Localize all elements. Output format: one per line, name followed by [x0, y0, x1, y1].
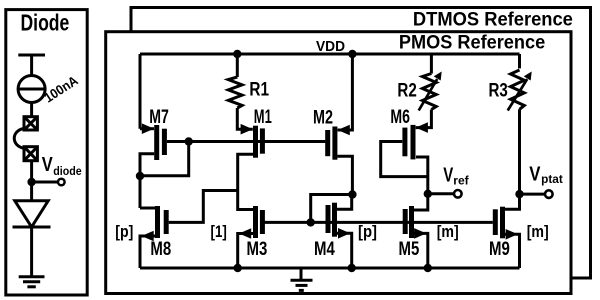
svg-text:diode: diode: [53, 164, 82, 178]
wire R3 bottom to Vptat node: [518, 109, 521, 194]
R2 trim arrow: [419, 72, 442, 111]
node dot Vptat: [515, 190, 523, 198]
wire bottom rail: [140, 267, 520, 270]
wire diode to ground: [30, 227, 33, 276]
terminal Vdiode: [58, 179, 65, 186]
crossed box 2: [24, 147, 37, 161]
ground main stem: [300, 268, 303, 280]
svg-text:[1]: [1]: [211, 222, 227, 241]
svg-text:DTMOS Reference: DTMOS Reference: [413, 10, 573, 31]
wire gate bus M3-M4-M5-M9: [264, 221, 493, 224]
svg-text:[m]: [m]: [527, 222, 549, 241]
node dot bottom M4: [348, 264, 356, 272]
current source diameter line: [18, 88, 45, 91]
R3 trim arrow: [508, 72, 532, 111]
svg-text:M3: M3: [247, 239, 268, 260]
wire M8 gate lead: [169, 191, 238, 223]
svg-text:[p]: [p]: [115, 222, 133, 241]
wire M4 source lead to bottom rail: [337, 233, 352, 268]
wire R2 top: [430, 54, 433, 74]
transistor M1: [241, 124, 265, 158]
svg-text:PMOS Reference: PMOS Reference: [399, 33, 545, 54]
transistor M3: [239, 206, 265, 239]
svg-text:Diode: Diode: [21, 9, 70, 35]
crossed box 1: [24, 117, 37, 130]
node dot bottom M5: [424, 264, 432, 272]
wire Vptat down to M9 drain lead: [505, 194, 520, 209]
wire top bar to circle: [30, 55, 33, 76]
svg-text:[p]: [p]: [358, 222, 377, 241]
svg-text:ref: ref: [453, 174, 469, 188]
svg-text:M5: M5: [399, 239, 420, 260]
transistor M6: [402, 122, 428, 159]
wire M2 source to VDD: [338, 54, 353, 130]
wire Vptat node to terminal: [520, 193, 546, 196]
wire M7 drain lead: [140, 154, 154, 176]
diode D1: [15, 201, 48, 227]
node dot Vref: [424, 190, 432, 198]
wire M5 source lead to bottom rail: [414, 233, 428, 268]
wire M1 drain to M3 drain: [238, 154, 253, 209]
resistor R3 zigzag: [511, 70, 525, 109]
svg-text:V: V: [42, 154, 54, 176]
wire R1 top: [236, 54, 239, 77]
wire M7 gate lead and gate bus to M2: [167, 140, 326, 143]
wire left edge upper: [139, 54, 142, 129]
svg-text:R1: R1: [249, 80, 269, 101]
wire R1 bottom to M1 source: [237, 108, 253, 129]
wire M6 gate feedback loop: [381, 142, 428, 177]
node dot bottom M3: [234, 264, 242, 272]
wire M4 drain lead: [337, 195, 352, 210]
svg-text:M2: M2: [313, 108, 333, 129]
svg-text:M6: M6: [390, 107, 410, 128]
node dot M2-M4: [348, 190, 356, 198]
transistor M2: [325, 125, 350, 160]
terminal Vptat: [545, 190, 553, 198]
wire circle to box1: [30, 103, 33, 117]
wire Vdiode tap: [32, 181, 58, 184]
bypass arc: [14, 129, 24, 149]
svg-text:M4: M4: [314, 239, 335, 260]
transistor M4: [326, 203, 351, 239]
wire M3 source lead to bottom rail: [238, 234, 253, 269]
node dot gate bus: [307, 218, 315, 226]
wire M7 gate-drain feedback: [140, 142, 189, 176]
ground symbol main: [291, 280, 313, 290]
svg-text:ptat: ptat: [541, 172, 563, 186]
svg-text:V: V: [529, 163, 541, 185]
wire M6 drain down to Vref node: [416, 157, 428, 194]
wire M2 drain down: [337, 156, 352, 194]
svg-text:[m]: [m]: [437, 222, 459, 241]
node dot M7 gate: [185, 137, 193, 145]
svg-text:VDD: VDD: [316, 38, 345, 55]
wire R3 top: [518, 54, 521, 68]
node dot rail R1: [233, 50, 241, 58]
wire left edge mid: [139, 176, 142, 208]
node dot Vdiode: [27, 178, 35, 186]
terminal Vref: [454, 190, 462, 198]
wire M8 drain lead: [140, 207, 155, 210]
wire M7 source lead: [140, 127, 154, 130]
node dot rail M2: [348, 50, 356, 58]
wire Vref node down to M5 drain: [414, 194, 428, 210]
transistor M7: [142, 123, 167, 160]
current source top bar: [18, 54, 45, 57]
transistor M9: [493, 207, 518, 240]
PMOS Reference box: [106, 32, 571, 294]
svg-text:M7: M7: [149, 107, 169, 128]
Diode box: [6, 10, 87, 295]
wire node to M4 gate: [311, 195, 353, 223]
DTMOS Reference box: [131, 8, 591, 279]
wire R2 bottom to M6 source: [416, 110, 432, 128]
svg-text:M9: M9: [489, 239, 510, 260]
svg-text:M8: M8: [150, 239, 171, 260]
resistor R1 zigzag: [228, 77, 242, 108]
current source I1 circle: [18, 76, 45, 103]
wire M9 source lead to bottom rail: [505, 234, 520, 268]
transistor M8: [142, 206, 169, 241]
wire Vref node to terminal: [428, 192, 454, 195]
wire M8 source lead to bottom rail: [140, 236, 155, 268]
wire box2 to diode: [30, 161, 33, 201]
resistor R2 zigzag: [422, 74, 436, 110]
svg-text:V: V: [443, 164, 453, 186]
svg-text:M1: M1: [254, 107, 272, 128]
svg-text:R2: R2: [397, 81, 416, 102]
node dot left edge: [136, 172, 144, 180]
ground symbol diode box: [19, 277, 45, 287]
wire VDD top rail: [140, 53, 520, 56]
transistor M5: [403, 206, 427, 239]
svg-text:R3: R3: [489, 81, 508, 102]
